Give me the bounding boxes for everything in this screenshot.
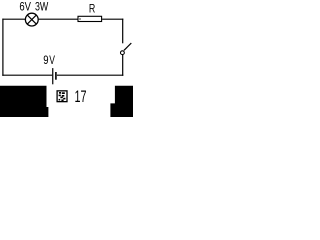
svg-text:R: R [89, 1, 96, 15]
svg-text:3W: 3W [35, 0, 49, 13]
black bar left [0, 86, 48, 117]
wire lamp-to-resistor [39, 18, 78, 20]
wire bottom left segment [2, 74, 52, 76]
wire bottom right segment [57, 74, 123, 76]
lamp L1 (6V 3W) [25, 13, 38, 26]
svg-text:17: 17 [75, 87, 87, 106]
resistor R [78, 16, 102, 21]
black bar right [110, 86, 133, 117]
wire right upper (to switch) [122, 19, 124, 44]
wire right lower (switch to corner) [122, 55, 124, 76]
svg-text:9: 9 [43, 55, 48, 67]
svg-text:V: V [49, 55, 55, 67]
wire top-left segment [2, 18, 25, 20]
wire resistor-to-corner [102, 18, 123, 20]
stray dot in resistor [79, 18, 80, 19]
battery B1 [53, 68, 57, 84]
wire left vertical [2, 19, 4, 76]
switch S1 (open) [121, 43, 132, 55]
svg-text:6V: 6V [19, 0, 31, 13]
caption glyph 图 [57, 91, 67, 102]
